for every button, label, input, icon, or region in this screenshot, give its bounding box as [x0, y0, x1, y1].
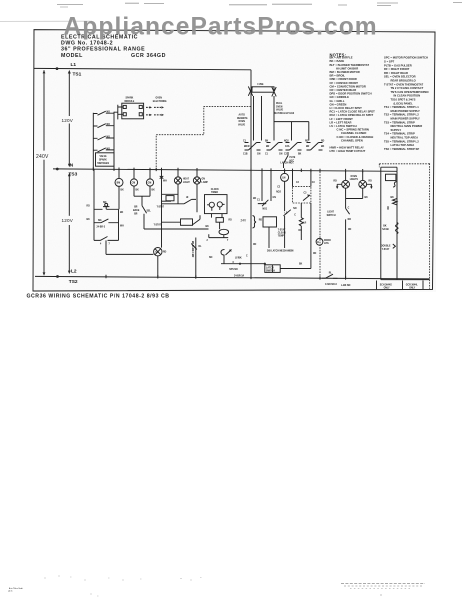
svg-text:BLT = BLOWER THERMOSTAT: BLT = BLOWER THERMOSTAT [330, 63, 370, 67]
dashed option box [379, 163, 429, 288]
lamp DOOR LITE [316, 238, 331, 245]
svg-text:BM = BLOWER MOTOR: BM = BLOWER MOTOR [330, 70, 360, 74]
svg-text:BK: BK [321, 146, 325, 148]
clock timer box [205, 189, 230, 242]
svg-text:BK 24-BR-3 BR: BK 24-BR-3 BR [191, 241, 194, 258]
switch VS1 [93, 111, 114, 115]
switch T-STAT lower [154, 215, 201, 227]
svg-text:CM = CONVECTION MOTOR: CM = CONVECTION MOTOR [330, 84, 366, 88]
svg-text:CLOCK: CLOCK [211, 189, 219, 191]
svg-text:ad im: ad im [8, 591, 13, 593]
svg-text:ELECTRODE: ELECTRODE [153, 101, 167, 103]
svg-text:24-BR-3A: 24-BR-3A [234, 274, 245, 277]
capacitor C [216, 218, 223, 223]
svg-text:HTC = HIGH TEMP CUTOUT: HTC = HIGH TEMP CUTOUT [330, 149, 366, 153]
svg-text:CLEAN: CLEAN [278, 231, 286, 234]
svg-text:T-STAT: T-STAT [157, 205, 165, 208]
svg-text:BK = BAKE: BK = BAKE [330, 59, 345, 63]
switch chain to L2 [191, 238, 202, 278]
svg-text:120V: 120V [62, 218, 74, 223]
svg-text:MAIN POWER SUPPLY: MAIN POWER SUPPLY [391, 117, 421, 121]
contact row K2 [265, 141, 283, 156]
wire valve box [274, 96, 309, 141]
svg-text:RD: RD [305, 141, 309, 143]
relay contact RL [221, 250, 242, 264]
svg-text:240V: 240V [36, 154, 49, 160]
svg-text:LAMP: LAMP [202, 181, 209, 184]
switch box DPS [265, 203, 311, 272]
switch VS4 [93, 148, 114, 152]
svg-text:BK: BK [298, 153, 302, 155]
24V bracket [241, 216, 257, 229]
switch LS [284, 208, 297, 248]
svg-text:NO: NO [103, 202, 107, 204]
svg-text:BK: BK [265, 141, 269, 143]
top margin scan marks [57, 3, 462, 8]
svg-text:HWR = HIGH WATT RELAY: HWR = HIGH WATT RELAY [330, 146, 365, 150]
node L2 junction dot [56, 275, 59, 278]
svg-text:BK: BK [365, 197, 369, 199]
relay small box top [386, 174, 398, 187]
svg-text:RD: RD [313, 253, 317, 255]
svg-text:TS1 = TERMINAL STRIP L1: TS1 = TERMINAL STRIP L1 [384, 105, 419, 109]
bottom page specks [8, 576, 425, 596]
svg-text:LF = LEFT FRONT: LF = LEFT FRONT [330, 117, 354, 121]
svg-text:LIGHT: LIGHT [327, 212, 334, 214]
auto reignite label [237, 113, 248, 126]
svg-text:C-NO NO-C: C-NO NO-C [325, 284, 337, 286]
svg-text:DWG No. 17048-2: DWG No. 17048-2 [61, 40, 113, 46]
wire N bus [53, 162, 397, 177]
svg-text:WH: WH [120, 226, 124, 228]
spark module U1 [114, 97, 144, 120]
switch light switch [327, 188, 363, 278]
svg-text:TN 2 CYCLING CONTACT: TN 2 CYCLING CONTACT [391, 86, 424, 90]
wire L2 bus [35, 269, 430, 286]
svg-text:RR = RIGHT REAR: RR = RIGHT REAR [384, 71, 408, 75]
node ticks on N bus [93, 167, 362, 172]
svg-text:GCR36 WIRING SCHEMATIC P/: GCR36 WIRING SCHEMATIC P/N 17048-2 8/93 … [27, 294, 170, 300]
svg-text:RF = RIGHT FRONT: RF = RIGHT FRONT [384, 67, 410, 71]
svg-text:RC1 = LATCH CLOSE RELAY SPDT: RC1 = LATCH CLOSE RELAY SPDT [330, 110, 376, 114]
svg-text:NATURAL/LP GAS: NATURAL/LP GAS [275, 112, 295, 115]
contact C1 latch [257, 170, 271, 210]
svg-text:DOUBLE: DOUBLE [381, 246, 391, 248]
svg-text:LS: LS [285, 212, 288, 214]
svg-text:(LOCK) PANEL: (LOCK) PANEL [394, 101, 414, 105]
svg-text:IN CLEAN POSITION: IN CLEAN POSITION [394, 94, 421, 98]
svg-text:LIGHT: LIGHT [183, 182, 190, 184]
svg-text:LIGHTS: LIGHTS [350, 179, 359, 181]
svg-text:L1: L1 [71, 62, 77, 68]
svg-text:GD = GRIDDLE: GD = GRIDDLE [330, 95, 350, 99]
svg-text:BR: BR [134, 214, 138, 216]
svg-text:24-BR-3: 24-BR-3 [97, 226, 106, 229]
terminal TS1 [68, 70, 82, 78]
relay dashed box RC1 [293, 170, 311, 203]
svg-text:SWITCH: SWITCH [327, 215, 336, 217]
svg-text:LATCH: LATCH [266, 266, 274, 269]
svg-text:NO: NO [107, 148, 111, 150]
svg-text:TN'S CAN OPEN/TEMP/OPEN: TN'S CAN OPEN/TEMP/OPEN [391, 90, 429, 94]
option cells labels [377, 280, 424, 289]
wire lower run [221, 262, 266, 277]
svg-text:NO: NO [293, 208, 297, 210]
switch lower ladder [94, 169, 153, 254]
svg-text:SPC = MOTOR POSITION SWITCH: SPC = MOTOR POSITION SWITCH [384, 56, 428, 60]
svg-text:MODEL: MODEL [61, 53, 83, 59]
svg-text:NEUTRAL TOP AREA: NEUTRAL TOP AREA [391, 136, 419, 140]
switch push HI [94, 207, 119, 210]
svg-text:5A/1B: 5A/1B [382, 228, 389, 231]
svg-text:GM: GM [148, 183, 152, 185]
title text ELECTRICAL SCHEMATIC [61, 34, 166, 59]
oven lights label [350, 176, 359, 181]
svg-text:BK: BK [136, 190, 140, 192]
svg-text:GL = GRILL: GL = GRILL [330, 99, 345, 103]
wire timer drops [212, 214, 223, 218]
svg-text:VALVE: VALVE [276, 109, 284, 112]
svg-text:CHANNEL OPEN: CHANNEL OPEN [341, 138, 363, 142]
svg-text:RD: RD [369, 181, 373, 183]
svg-text:TS2: TS2 [69, 279, 78, 285]
svg-text:NO: NO [107, 136, 111, 138]
svg-text:DPS = DOOR POSITION SWITCH: DPS = DOOR POSITION SWITCH [330, 92, 372, 96]
svg-text:CBD = FRONT DOOR: CBD = FRONT DOOR [330, 77, 357, 81]
svg-text:REAR BROILER/LO: REAR BROILER/LO [391, 79, 416, 83]
svg-text:ON: ON [202, 179, 206, 181]
svg-text:DOOR: DOOR [324, 240, 331, 242]
svg-text:NEUTRAL MAIN POWER: NEUTRAL MAIN POWER [391, 124, 423, 128]
svg-text:TS6 = TERMINAL STRIP SP: TS6 = TERMINAL STRIP SP [384, 147, 419, 151]
svg-text:36" PROFESSIONAL RANGE: 36" PROFESSIONAL RANGE [61, 47, 145, 53]
node N junction dot [56, 168, 59, 171]
motor LM latch motor [276, 161, 294, 211]
lamp HEAT LIGHT [174, 169, 190, 203]
svg-text:TIMER: TIMER [211, 192, 218, 194]
wire dashed section divider [319, 172, 321, 280]
svg-text:BK: BK [383, 226, 387, 228]
lamp oven light 2 [359, 171, 373, 189]
svg-text:TS3 = TERMINAL STRIP: TS3 = TERMINAL STRIP [384, 120, 415, 124]
svg-text:N: N [70, 162, 74, 168]
notes left column [330, 56, 376, 154]
svg-text:NO2: NO2 [276, 191, 281, 193]
switch VS2 [93, 124, 114, 128]
lamp 5A indicator [154, 248, 167, 277]
wire 240V measure line [36, 70, 49, 276]
dual oven valve [254, 96, 309, 141]
svg-text:OVEN: OVEN [239, 121, 246, 123]
svg-text:LS = LATCH SWITCH: LS = LATCH SWITCH [330, 124, 357, 128]
svg-text:VALVE: VALVE [238, 124, 246, 127]
svg-text:HI: HI [186, 197, 189, 199]
wire L1 bus [34, 62, 251, 70]
buzzer BZ [219, 229, 229, 234]
svg-text:RD: RD [321, 141, 325, 143]
svg-text:PLTB = GAS PULSER: PLTB = GAS PULSER [384, 63, 412, 67]
svg-text:C1B: C1B [243, 153, 248, 155]
svg-text:RD: RD [348, 229, 352, 231]
svg-text:CHANNEL CLOSED: CHANNEL CLOSED [341, 131, 366, 135]
svg-text:BR: BR [306, 146, 310, 148]
switch VS3 [93, 136, 114, 140]
resistor BK jog [386, 197, 397, 210]
svg-text:NO1: NO1 [263, 209, 268, 211]
svg-text:TS4 = TERMINAL STRIP: TS4 = TERMINAL STRIP [384, 132, 415, 136]
wire stepped dotted run to N [156, 106, 251, 169]
svg-text:CR = CENTER REAR: CR = CENTER REAR [330, 88, 357, 92]
svg-text:NO2: NO2 [284, 141, 289, 143]
svg-text:SEL: SEL [147, 211, 152, 213]
svg-text:GCR 3644L: GCR 3644L [406, 284, 419, 287]
svg-text:NO: NO [107, 112, 111, 114]
svg-text:CF = CONVEC FRONT: CF = CONVEC FRONT [330, 81, 359, 85]
svg-text:LR: LR [303, 223, 306, 225]
heater coil element [382, 223, 398, 234]
svg-text:C-NC = SPRING RETURN: C-NC = SPRING RETURN [337, 128, 369, 132]
svg-text:GCR 364GD: GCR 364GD [131, 53, 166, 59]
svg-text:SPARK: SPARK [99, 159, 107, 162]
coil LR [299, 203, 307, 240]
svg-text:BK: BK [87, 219, 91, 221]
svg-text:TS10 SPDT & 240'S: TS10 SPDT & 240'S [391, 98, 416, 102]
switch HTC gas pulser [284, 152, 296, 168]
svg-text:LF/BK: LF/BK [235, 257, 242, 259]
svg-text:NO: NO [107, 124, 111, 126]
svg-text:GN: GN [257, 153, 261, 155]
svg-text:SWITCH: SWITCH [266, 270, 275, 272]
svg-text:AUTO: AUTO [239, 113, 246, 116]
svg-text:TS2 = TERMINAL STRIP L2: TS2 = TERMINAL STRIP L2 [384, 113, 419, 117]
svg-text:T-STAT: T-STAT [278, 228, 286, 231]
svg-text:L2: L2 [71, 269, 77, 275]
svg-text:RD: RD [386, 207, 388, 211]
svg-text:BR = BROIL: BR = BROIL [330, 74, 346, 78]
svg-text:SCH 3644G: SCH 3644G [380, 284, 392, 287]
svg-text:LR = LEFT REAR: LR = LEFT REAR [330, 120, 352, 124]
svg-text:BAKE: BAKE [133, 209, 140, 212]
svg-text:RD: RD [299, 230, 303, 232]
svg-text:NO: NO [348, 219, 352, 221]
svg-text:VALVE: VALVE [100, 155, 108, 158]
svg-text:L-BK NO: L-BK NO [341, 285, 351, 287]
svg-text:24V: 24V [241, 219, 248, 223]
valve spark switches label box [96, 153, 115, 166]
valve spark switches ladder [93, 111, 114, 169]
svg-text:SPARK: SPARK [126, 97, 134, 100]
svg-text:LATCH-TOP AREA: LATCH-TOP AREA [391, 143, 415, 147]
svg-text:CM: CM [132, 183, 136, 185]
svg-text:SEL = OVEN SELECTOR: SEL = OVEN SELECTOR [384, 75, 416, 79]
svg-text:NO.: NO. [98, 220, 102, 222]
wire 120V measure line lower [62, 173, 74, 274]
svg-text:BK: BK [121, 190, 125, 192]
svg-text:BK = AIR BAFFLE: BK = AIR BAFFLE [330, 56, 353, 60]
switch 24-BR-3 [94, 219, 119, 223]
svg-text:LATCH MOT.: LATCH MOT. [281, 161, 295, 164]
svg-text:BK: BK [120, 212, 124, 214]
svg-text:SPS NO: SPS NO [229, 269, 238, 271]
motor GM [146, 170, 153, 197]
svg-text:RD: RD [253, 244, 257, 246]
svg-text:BK: BK [299, 264, 303, 266]
svg-text:T-STAT: T-STAT [382, 248, 390, 251]
coil M2 [217, 202, 222, 207]
svg-text:T-STAT: T-STAT [154, 224, 162, 227]
svg-text:TEMP: TEMP [278, 236, 285, 238]
node L1 junction dot [56, 67, 59, 70]
wire drop to lower run [106, 240, 153, 254]
svg-text:DUAL: DUAL [276, 102, 283, 105]
svg-text:OVEN: OVEN [351, 176, 358, 178]
svg-text:BK/R: BK/R [244, 146, 250, 148]
svg-text:BR: BR [266, 146, 270, 148]
svg-text:NO: NO [209, 257, 213, 259]
svg-text:OVEN: OVEN [156, 97, 163, 99]
contact row K4 [305, 141, 325, 150]
notes right column [384, 56, 428, 151]
svg-text:REIGNITE: REIGNITE [237, 118, 248, 120]
svg-text:RD: RD [334, 181, 338, 183]
svg-text:WH: WH [163, 181, 167, 183]
fuse F1 [248, 84, 276, 96]
svg-text:RD: RD [87, 206, 91, 208]
svg-text:HEAT: HEAT [183, 178, 190, 181]
svg-text:120V: 120V [62, 118, 74, 123]
svg-text:FUSE: FUSE [258, 84, 265, 86]
svg-text:BK: BK [253, 198, 257, 200]
svg-text:GN: GN [273, 197, 277, 199]
node ticks on L2 bus [106, 275, 346, 280]
svg-text:H = CLOCK RELAY SPST: H = CLOCK RELAY SPST [330, 106, 363, 110]
switch SEL selector [133, 196, 209, 229]
svg-text:BR: BR [134, 207, 138, 209]
t-stat clean temp label [278, 228, 286, 237]
svg-text:BK: BK [206, 226, 210, 228]
svg-text:C-NO = CLOSED & ORANGE: C-NO = CLOSED & ORANGE [337, 135, 374, 139]
switch bottom right RL [322, 273, 351, 288]
lamp ON LAMP [193, 170, 208, 213]
wire branch column [160, 169, 181, 247]
contact row K1 [243, 141, 261, 156]
svg-text:BK: BK [391, 197, 395, 199]
wire L1 drop long vertical [250, 70, 252, 278]
svg-text:HI-LIMIT ON BKR: HI-LIMIT ON BKR [336, 66, 358, 70]
svg-text:LITE: LITE [324, 243, 329, 245]
svg-text:TS1: TS1 [73, 72, 82, 78]
svg-text:PLTB: PLTB [290, 157, 296, 159]
svg-text:C2A: C2A [285, 145, 290, 148]
lamp oven light 1 [334, 171, 350, 189]
wire 120V measure line upper [62, 74, 74, 168]
svg-text:SUPPLY: SUPPLY [391, 128, 402, 132]
svg-text:RD: RD [229, 220, 233, 222]
svg-text:MAIN POWER SUPPLY: MAIN POWER SUPPLY [391, 109, 421, 113]
svg-text:BM: BM [117, 183, 121, 185]
svg-text:SWITCHES: SWITCHES [97, 163, 109, 165]
wire valve leads [253, 96, 255, 141]
wire inner box [381, 167, 430, 279]
double t-stat label [381, 244, 395, 251]
svg-text:365 LATCH MECHANISM: 365 LATCH MECHANISM [267, 250, 293, 253]
svg-text:TS3: TS3 [69, 171, 78, 177]
switch rung3 [94, 237, 119, 241]
svg-text:ONLY: ONLY [384, 288, 391, 290]
wire module input [114, 105, 123, 120]
motor BM [115, 169, 123, 209]
oven electrode arrows [146, 97, 167, 116]
svg-text:T-STAT = OVEN THERMOSTAT: T-STAT = OVEN THERMOSTAT [384, 82, 423, 86]
svg-text:RC2 = LATCH OPEN RELAY SPDT: RC2 = LATCH OPEN RELAY SPDT [330, 113, 374, 117]
svg-text:RD: RD [163, 252, 167, 254]
motor CM [130, 169, 137, 196]
svg-text:LM: LM [282, 178, 285, 180]
switch T-STAT upper [157, 197, 197, 209]
svg-text:RD: RD [259, 219, 263, 221]
border frame [33, 30, 435, 291]
svg-text:OVEN: OVEN [276, 106, 283, 108]
wire misc labels [87, 181, 369, 266]
svg-text:TS5 = TERMINAL STRIP L2: TS5 = TERMINAL STRIP L2 [384, 139, 419, 143]
contact row K3 [284, 141, 302, 156]
svg-text:ONLY: ONLY [409, 288, 416, 290]
relay box RC2 [259, 217, 277, 248]
coil M1 [209, 202, 214, 207]
svg-text:MODULE: MODULE [125, 101, 135, 103]
svg-text:AppliancePartsPros.com: AppliancePartsPros.com [64, 14, 378, 41]
svg-text:BK: BK [152, 190, 156, 192]
faint fold line top [0, 20, 92, 22]
svg-text:GN: GN [279, 153, 283, 155]
svg-text:GN = GREEN: GN = GREEN [330, 102, 347, 106]
svg-text:S = SPT: S = SPT [384, 59, 395, 63]
